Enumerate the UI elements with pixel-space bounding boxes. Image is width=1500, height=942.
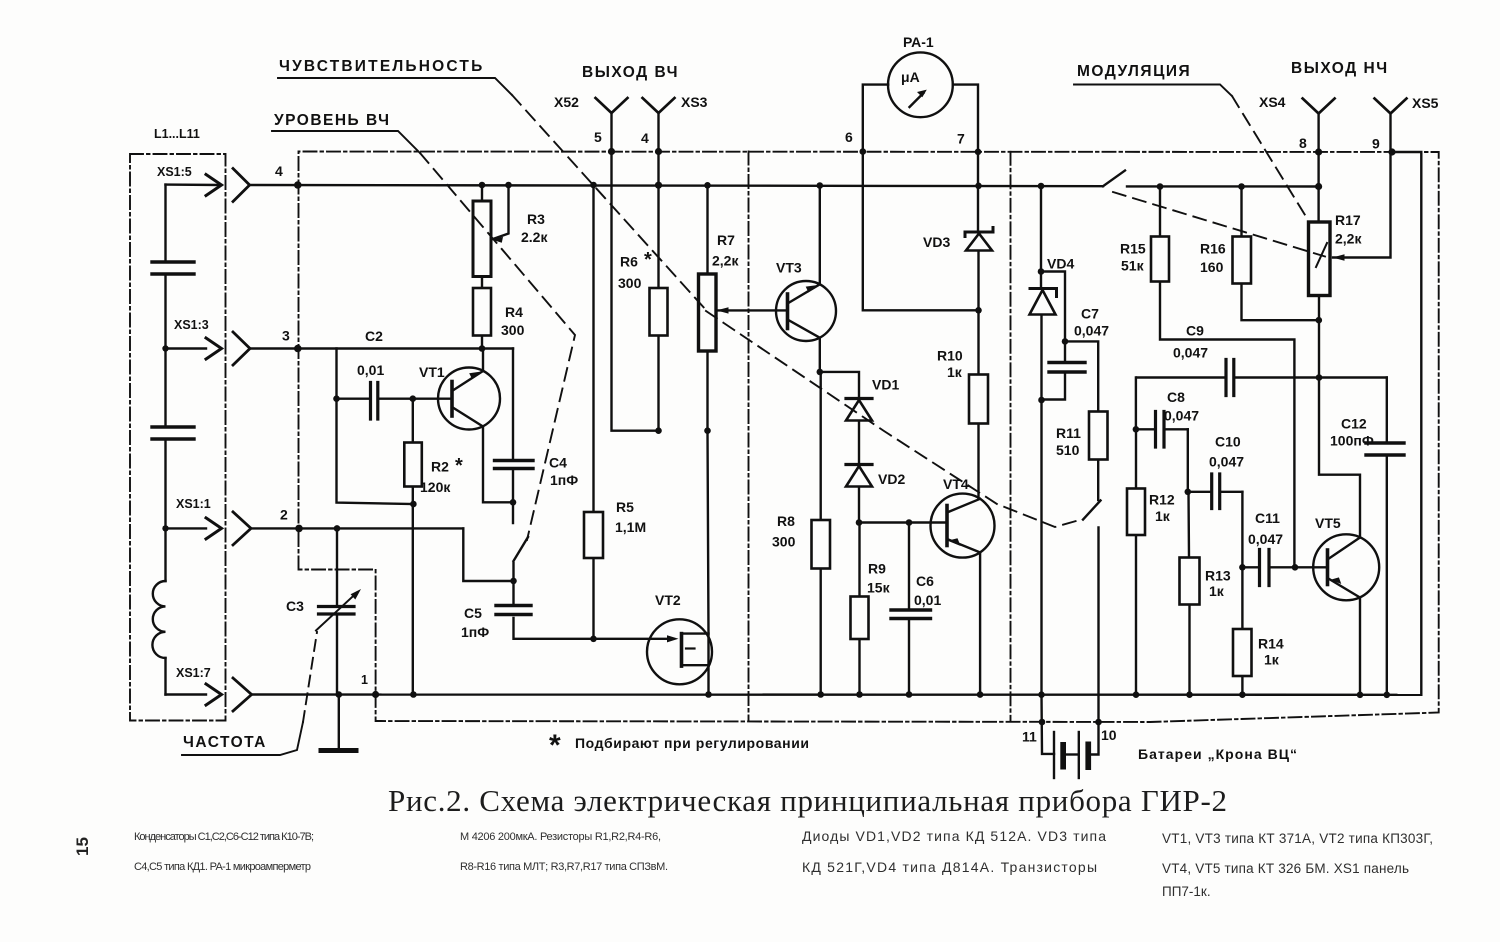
svg-text:0,047: 0,047 bbox=[1074, 323, 1109, 339]
wire C10 node / R13 bbox=[1188, 429, 1243, 694]
wire net3 corner down to C4 bbox=[512, 349, 514, 461]
svg-text:VT4, VT5 типа КТ 326 БМ. ХS1 п: VT4, VT5 типа КТ 326 БМ. ХS1 панель bbox=[1162, 861, 1409, 876]
wire PA-1 right terminal down to VD3 bbox=[953, 85, 978, 231]
svg-text:510: 510 bbox=[1056, 442, 1080, 458]
resistor R15 bbox=[1151, 237, 1169, 282]
capacitor C9 bbox=[1226, 360, 1234, 396]
jack XS4 fork bbox=[1303, 99, 1335, 114]
outer screen boundary (dash-dot) bbox=[299, 152, 1439, 723]
svg-text:R10: R10 bbox=[937, 348, 963, 364]
transistor VT4 bbox=[931, 494, 995, 558]
wire R7 wiper to VT3 base bbox=[717, 309, 788, 311]
wire R15 leads and run to VT5 base bbox=[1160, 187, 1294, 568]
svg-text:1: 1 bbox=[361, 673, 368, 687]
wire X52 stem down to RF-out node bbox=[612, 113, 659, 431]
wire C5 bottom line to VT2 gate bbox=[514, 618, 673, 639]
svg-text:4: 4 bbox=[275, 163, 283, 179]
wire net 3 bbox=[250, 347, 513, 349]
svg-text:1к: 1к bbox=[947, 364, 963, 380]
capacitor C11 bbox=[1260, 550, 1270, 586]
connector XS1:5 socket chevron bbox=[233, 169, 250, 202]
connector XS1:5 plug arrow bbox=[206, 175, 222, 196]
svg-text:2: 2 bbox=[280, 507, 288, 523]
section boundary dash-dot vertical 1 bbox=[748, 152, 750, 722]
wire R8 leads bbox=[820, 372, 822, 695]
svg-text:Х52: Х52 bbox=[554, 94, 579, 110]
wire C2 left branch (net3 to R2 bottom) bbox=[337, 349, 414, 505]
wire net 4 (top rail) bbox=[250, 185, 1319, 187]
resistor R10 bbox=[969, 375, 988, 424]
svg-text:1пФ: 1пФ bbox=[461, 624, 489, 640]
svg-text:1,1М: 1,1М bbox=[615, 519, 646, 535]
capacitor C10 bbox=[1212, 474, 1220, 509]
svg-text:ВЫХОД НЧ: ВЫХОД НЧ bbox=[1291, 60, 1389, 77]
wire VD1-VD2 link bbox=[858, 421, 860, 464]
svg-text:С11: С11 bbox=[1255, 510, 1280, 526]
svg-text:VD1: VD1 bbox=[872, 377, 899, 393]
potentiometer R7 bbox=[699, 274, 729, 351]
svg-text:300: 300 bbox=[501, 322, 525, 338]
svg-text:R5: R5 bbox=[616, 499, 634, 515]
wire VT1 base to R2, R2 to net1 bbox=[412, 399, 414, 695]
wire R16 leads and link to R17 lead bbox=[1242, 187, 1319, 321]
svg-text:0,047: 0,047 bbox=[1173, 345, 1208, 361]
svg-text:РА-1: РА-1 bbox=[903, 34, 934, 50]
jack XS5 fork bbox=[1375, 99, 1407, 114]
wire VD2 to VT4 base node bbox=[858, 487, 860, 523]
wire net 2 bbox=[251, 527, 463, 529]
svg-text:С4: С4 bbox=[549, 455, 567, 471]
svg-text:0,01: 0,01 bbox=[914, 592, 941, 608]
wire VT5 emitter to net1 bbox=[1359, 598, 1361, 695]
svg-text:R7: R7 bbox=[717, 232, 735, 248]
svg-text:VT2: VT2 bbox=[655, 592, 681, 608]
svg-text:2.2к: 2.2к bbox=[521, 229, 548, 245]
svg-text:R12: R12 bbox=[1149, 492, 1175, 508]
diode VD2 bbox=[846, 465, 872, 487]
svg-text:С3: С3 bbox=[286, 598, 304, 614]
svg-text:*: * bbox=[644, 249, 652, 271]
svg-text:15: 15 bbox=[73, 837, 92, 856]
svg-text:Диоды VD1,VD2 типа КД 512А. VD: Диоды VD1,VD2 типа КД 512А. VD3 типа bbox=[802, 828, 1106, 844]
wire VT3 collector to net4 bbox=[819, 186, 821, 285]
wire C12 leads bbox=[1386, 378, 1388, 695]
svg-text:3: 3 bbox=[282, 328, 290, 344]
switch SA2 (on net4, ganged with R17) bbox=[1103, 171, 1125, 187]
wire C9 line (C8 node to C12 top) bbox=[1137, 376, 1387, 378]
resistor R5 bbox=[584, 512, 603, 558]
wire VD4 branch from net4 bbox=[1040, 186, 1043, 695]
svg-text:5: 5 bbox=[594, 129, 602, 145]
wire R6 leads bbox=[657, 186, 659, 431]
wire R3-R4 link bbox=[481, 277, 483, 289]
capacitor C8 bbox=[1156, 412, 1165, 448]
svg-text:1к: 1к bbox=[1209, 583, 1225, 599]
svg-text:С4,С5 типа КД1. РА-1 микроампе: С4,С5 типа КД1. РА-1 микроамперметр bbox=[134, 861, 311, 873]
wire C7 top branch bbox=[1041, 272, 1065, 363]
wire C7 bottom bend to VD4 line bbox=[1042, 373, 1066, 400]
capacitor C5 bbox=[496, 606, 531, 615]
zener diode VD4 bbox=[1030, 289, 1057, 315]
svg-text:*: * bbox=[549, 729, 561, 762]
wire C4 bottom to switch SA1 top bbox=[512, 469, 514, 523]
svg-text:Подбирают при регулировании: Подбирают при регулировании bbox=[575, 735, 809, 751]
wire R7 leads and RF node to VT2 drain bbox=[708, 185, 709, 694]
wire VT3 emitter down bbox=[819, 338, 821, 372]
svg-text:VT3: VT3 bbox=[776, 260, 802, 276]
wire VT2 source/drain taps bbox=[682, 634, 709, 666]
wire VT5 base bbox=[1295, 566, 1328, 568]
svg-text:R8-R16 типа МЛТ; R3,R7,R17 тип: R8-R16 типа МЛТ; R3,R7,R17 типа СПЗвМ. bbox=[460, 861, 668, 873]
svg-text:1пФ: 1пФ bbox=[550, 472, 578, 488]
svg-text:ЧАСТОТА: ЧАСТОТА bbox=[183, 734, 267, 751]
wire C2 to VT1 base bbox=[337, 398, 453, 400]
capacitor C3 (variable) bbox=[316, 589, 361, 631]
svg-text:С2: С2 bbox=[365, 328, 383, 344]
svg-text:300: 300 bbox=[618, 275, 642, 291]
wire VT3 emitter node to VD1 bbox=[820, 372, 859, 398]
capacitor C7 bbox=[1049, 363, 1085, 373]
resistor R16 bbox=[1233, 237, 1252, 284]
svg-text:10: 10 bbox=[1101, 727, 1117, 743]
wire meter shunt: ground symbol stem bbox=[338, 695, 340, 749]
wire VT4 emitter to net1 bbox=[979, 552, 981, 694]
jack X52 fork bbox=[596, 98, 628, 113]
capacitor C1a (inside coil box) bbox=[152, 262, 194, 274]
wire node2 jog to switch/C5 node bbox=[463, 528, 513, 581]
svg-text:Конденсаторы С1,С2,С6-С12 типа: Конденсаторы С1,С2,С6-С12 типа К10-7В; bbox=[134, 831, 314, 843]
svg-text:ХS4: ХS4 bbox=[1259, 94, 1286, 110]
svg-text:С8: С8 bbox=[1167, 389, 1185, 405]
svg-text:VT5: VT5 bbox=[1315, 515, 1341, 531]
wire R9 leads bbox=[858, 523, 860, 695]
mechanical link SA2 to R17 wiper (dashed) bbox=[1113, 192, 1325, 257]
wire VT1 collector down and right to C4 bottom node bbox=[483, 427, 513, 503]
svg-text:Рис.2. Схема электрическая при: Рис.2. Схема электрическая принципиальна… bbox=[388, 783, 1227, 818]
svg-text:R4: R4 bbox=[505, 304, 523, 320]
wire net9 corner to right bus bbox=[1392, 152, 1421, 695]
svg-text:0,01: 0,01 bbox=[357, 362, 384, 378]
wire PA-1 left terminal down to VD3 bottom node bbox=[863, 85, 979, 311]
pointer: RF level label underline and dashed lead to SA1 bbox=[272, 131, 575, 540]
wire net 1 (bottom rail) bbox=[252, 693, 1422, 696]
capacitor C12 bbox=[1366, 443, 1404, 455]
resistor R2 bbox=[404, 443, 422, 487]
coil screen box L1...L11 (dash-dot) bbox=[130, 154, 226, 721]
resistor R13 bbox=[1180, 558, 1200, 605]
svg-text:ВЫХОД ВЧ: ВЫХОД ВЧ bbox=[582, 64, 679, 81]
svg-text:VT1, VT3 типа КТ 371А, VT2 тип: VT1, VT3 типа КТ 371А, VT2 типа КП303Г, bbox=[1162, 831, 1433, 846]
svg-text:0,047: 0,047 bbox=[1209, 454, 1244, 470]
svg-text:VT1: VT1 bbox=[419, 364, 445, 380]
microammeter PA-1 bbox=[888, 52, 953, 117]
svg-text:ХS1:1: ХS1:1 bbox=[176, 497, 211, 511]
svg-text:L1...L11: L1...L11 bbox=[154, 127, 200, 141]
resistor R4 bbox=[473, 288, 491, 336]
svg-text:300: 300 bbox=[772, 534, 796, 550]
svg-text:С7: С7 bbox=[1081, 306, 1099, 322]
resistor R9 bbox=[851, 597, 869, 640]
svg-text:160: 160 bbox=[1200, 259, 1224, 275]
wire C6 leads bbox=[908, 523, 910, 695]
svg-text:R17: R17 bbox=[1335, 212, 1361, 228]
connector XS1:1 plug arrow bbox=[206, 518, 222, 539]
wire XS3 stem bbox=[657, 113, 659, 186]
svg-text:11: 11 bbox=[1022, 729, 1037, 745]
svg-text:R3: R3 bbox=[527, 211, 545, 227]
connector XS1:3 plug arrow bbox=[206, 338, 222, 359]
pointer: sensitivity label underline and dashed lead to R7 wiper bbox=[278, 78, 706, 310]
wire C8 left node up/down (R12) bbox=[1136, 378, 1188, 695]
transistor VT1 bbox=[438, 368, 500, 430]
wire R17 bottom lead to VT5 collector bbox=[1319, 296, 1360, 538]
svg-text:М 4206 200мкА. Резисторы R1,R2: М 4206 200мкА. Резисторы R1,R2,R4-R6, bbox=[460, 831, 661, 843]
wire C3 branch from net2 bbox=[336, 528, 338, 694]
svg-text:С10: С10 bbox=[1215, 434, 1241, 450]
potentiometer R3 bbox=[473, 201, 503, 277]
svg-text:VT4: VT4 bbox=[943, 476, 969, 492]
jack XS3 fork bbox=[643, 98, 675, 113]
svg-text:51к: 51к bbox=[1121, 258, 1145, 274]
wire battery middle link bbox=[1066, 753, 1079, 755]
wire VD3 bottom to node, R10 bbox=[977, 252, 979, 499]
wire R3 wiper return to net4 bbox=[492, 185, 509, 240]
connector XS1:7 plug arrow bbox=[206, 684, 222, 705]
svg-text:ХS5: ХS5 bbox=[1412, 95, 1439, 111]
svg-text:ЧУВСТВИТЕЛЬНОСТЬ: ЧУВСТВИТЕЛЬНОСТЬ bbox=[279, 58, 484, 75]
svg-text:120к: 120к bbox=[420, 479, 451, 495]
svg-text:МОДУЛЯЦИЯ: МОДУЛЯЦИЯ bbox=[1077, 63, 1191, 80]
svg-text:ХS1:3: ХS1:3 bbox=[174, 318, 209, 332]
wire C11 node / R14 bbox=[1242, 492, 1295, 695]
wire coil inner vertical bbox=[164, 185, 166, 695]
svg-text:100пФ: 100пФ bbox=[1330, 433, 1374, 449]
battery GB1 cell1 bbox=[1054, 732, 1066, 778]
svg-text:VD2: VD2 bbox=[878, 471, 905, 487]
svg-text:С9: С9 bbox=[1186, 323, 1204, 339]
svg-text:С6: С6 bbox=[916, 573, 934, 589]
svg-text:2,2к: 2,2к bbox=[1335, 231, 1362, 247]
wire R11 bottom to switch SA3 bbox=[1097, 460, 1099, 500]
pointer: frequency label underline and dashed lead to C3 bbox=[182, 632, 317, 755]
svg-text:9: 9 bbox=[1372, 136, 1380, 152]
capacitor C2 bbox=[371, 383, 378, 420]
diode VD1 bbox=[846, 399, 872, 421]
wire switch SA1 bottom contact to C5 bbox=[512, 563, 514, 605]
battery GB2 cell2 bbox=[1079, 732, 1091, 778]
wire R3 top lead bbox=[481, 185, 483, 201]
svg-text:КД 521Г,VD4 типа Д814А. Транзи: КД 521Г,VD4 типа Д814А. Транзисторы bbox=[802, 859, 1097, 875]
svg-text:ПП7-1к.: ПП7-1к. bbox=[1162, 884, 1211, 899]
transistor VT5 bbox=[1313, 534, 1379, 600]
connector XS1:7 socket chevron bbox=[233, 678, 252, 711]
pointer: modulation label underline and dashed lead to R17 bbox=[1074, 85, 1305, 216]
svg-text:R2: R2 bbox=[431, 459, 449, 475]
svg-text:15к: 15к bbox=[867, 580, 891, 596]
svg-text:μА: μА bbox=[901, 69, 920, 85]
wire VT4 base bbox=[859, 521, 947, 523]
svg-text:R11: R11 bbox=[1056, 425, 1081, 441]
svg-text:С12: С12 bbox=[1341, 416, 1367, 432]
svg-text:ХS1:5: ХS1:5 bbox=[157, 165, 192, 179]
svg-text:7: 7 bbox=[957, 131, 965, 147]
resistor R11 bbox=[1089, 412, 1108, 460]
svg-text:R9: R9 bbox=[868, 561, 886, 577]
connector XS1:1 socket chevron bbox=[233, 512, 251, 545]
svg-text:*: * bbox=[455, 455, 463, 477]
transistor VT2 (FET) bbox=[647, 619, 712, 684]
resistor R6 bbox=[650, 288, 668, 336]
section boundary dash-dot vertical 2 bbox=[1010, 152, 1012, 722]
svg-text:1к: 1к bbox=[1155, 508, 1171, 524]
switch SA3 (power, ganged with R7) bbox=[1083, 501, 1101, 520]
svg-text:Батареи „Крона ВЦ“: Батареи „Крона ВЦ“ bbox=[1138, 746, 1297, 762]
potentiometer R17 bbox=[1309, 222, 1345, 296]
wire battery left lead bbox=[1042, 695, 1055, 754]
svg-text:VD4: VD4 bbox=[1047, 256, 1074, 272]
svg-text:R16: R16 bbox=[1200, 241, 1226, 257]
svg-text:4: 4 bbox=[641, 130, 649, 146]
svg-text:R14: R14 bbox=[1258, 636, 1284, 652]
transistor VT3 bbox=[776, 281, 836, 341]
svg-text:С5: С5 bbox=[464, 605, 482, 621]
svg-text:R15: R15 bbox=[1120, 241, 1146, 257]
svg-text:0,047: 0,047 bbox=[1164, 408, 1199, 424]
svg-text:1к: 1к bbox=[1264, 652, 1280, 668]
switch SA1 (C4/C5 select) bbox=[514, 537, 529, 561]
inductor L1...L11 bbox=[152, 581, 165, 658]
zener diode VD3 bbox=[965, 228, 993, 251]
connector XS1:3 socket chevron bbox=[233, 332, 250, 365]
wire R5 leads bbox=[592, 185, 594, 639]
mechanical link R7 wiper to SA3 (dashed) bbox=[706, 311, 1083, 527]
svg-text:R13: R13 bbox=[1205, 568, 1231, 584]
capacitor C1b (inside coil box) bbox=[152, 427, 194, 439]
svg-text:R6: R6 bbox=[620, 254, 638, 270]
svg-text:6: 6 bbox=[845, 129, 853, 145]
wire XS5 stem bbox=[1389, 114, 1391, 153]
svg-text:2,2к: 2,2к bbox=[712, 253, 739, 269]
svg-text:8: 8 bbox=[1299, 135, 1307, 151]
resistor R8 bbox=[812, 520, 831, 569]
wire SA3 lower contact through rail to battery bbox=[1092, 528, 1099, 755]
wire XS4 stem / R17 top bbox=[1317, 114, 1319, 223]
wire VT1 emitter up to net3 bbox=[482, 349, 484, 372]
svg-text:VD3: VD3 bbox=[923, 234, 950, 250]
svg-text:0,047: 0,047 bbox=[1248, 531, 1283, 547]
svg-text:ХS1:7: ХS1:7 bbox=[176, 666, 211, 680]
capacitor C4 bbox=[495, 461, 534, 469]
resistor R14 bbox=[1233, 629, 1252, 676]
svg-text:ХS3: ХS3 bbox=[681, 94, 708, 110]
wire coil tap stubs to connectors bbox=[166, 185, 222, 695]
wire R4 bottom to net3 bbox=[481, 336, 483, 349]
capacitor C6 bbox=[891, 610, 931, 619]
resistor R12 bbox=[1127, 489, 1145, 536]
svg-text:R8: R8 bbox=[777, 513, 795, 529]
wire R11 branch from C7 top bbox=[1065, 341, 1098, 411]
wire R17 wiper to XS5 bbox=[1333, 152, 1391, 258]
svg-text:УРОВЕНЬ ВЧ: УРОВЕНЬ ВЧ bbox=[274, 112, 391, 129]
ground symbol bbox=[321, 748, 356, 753]
